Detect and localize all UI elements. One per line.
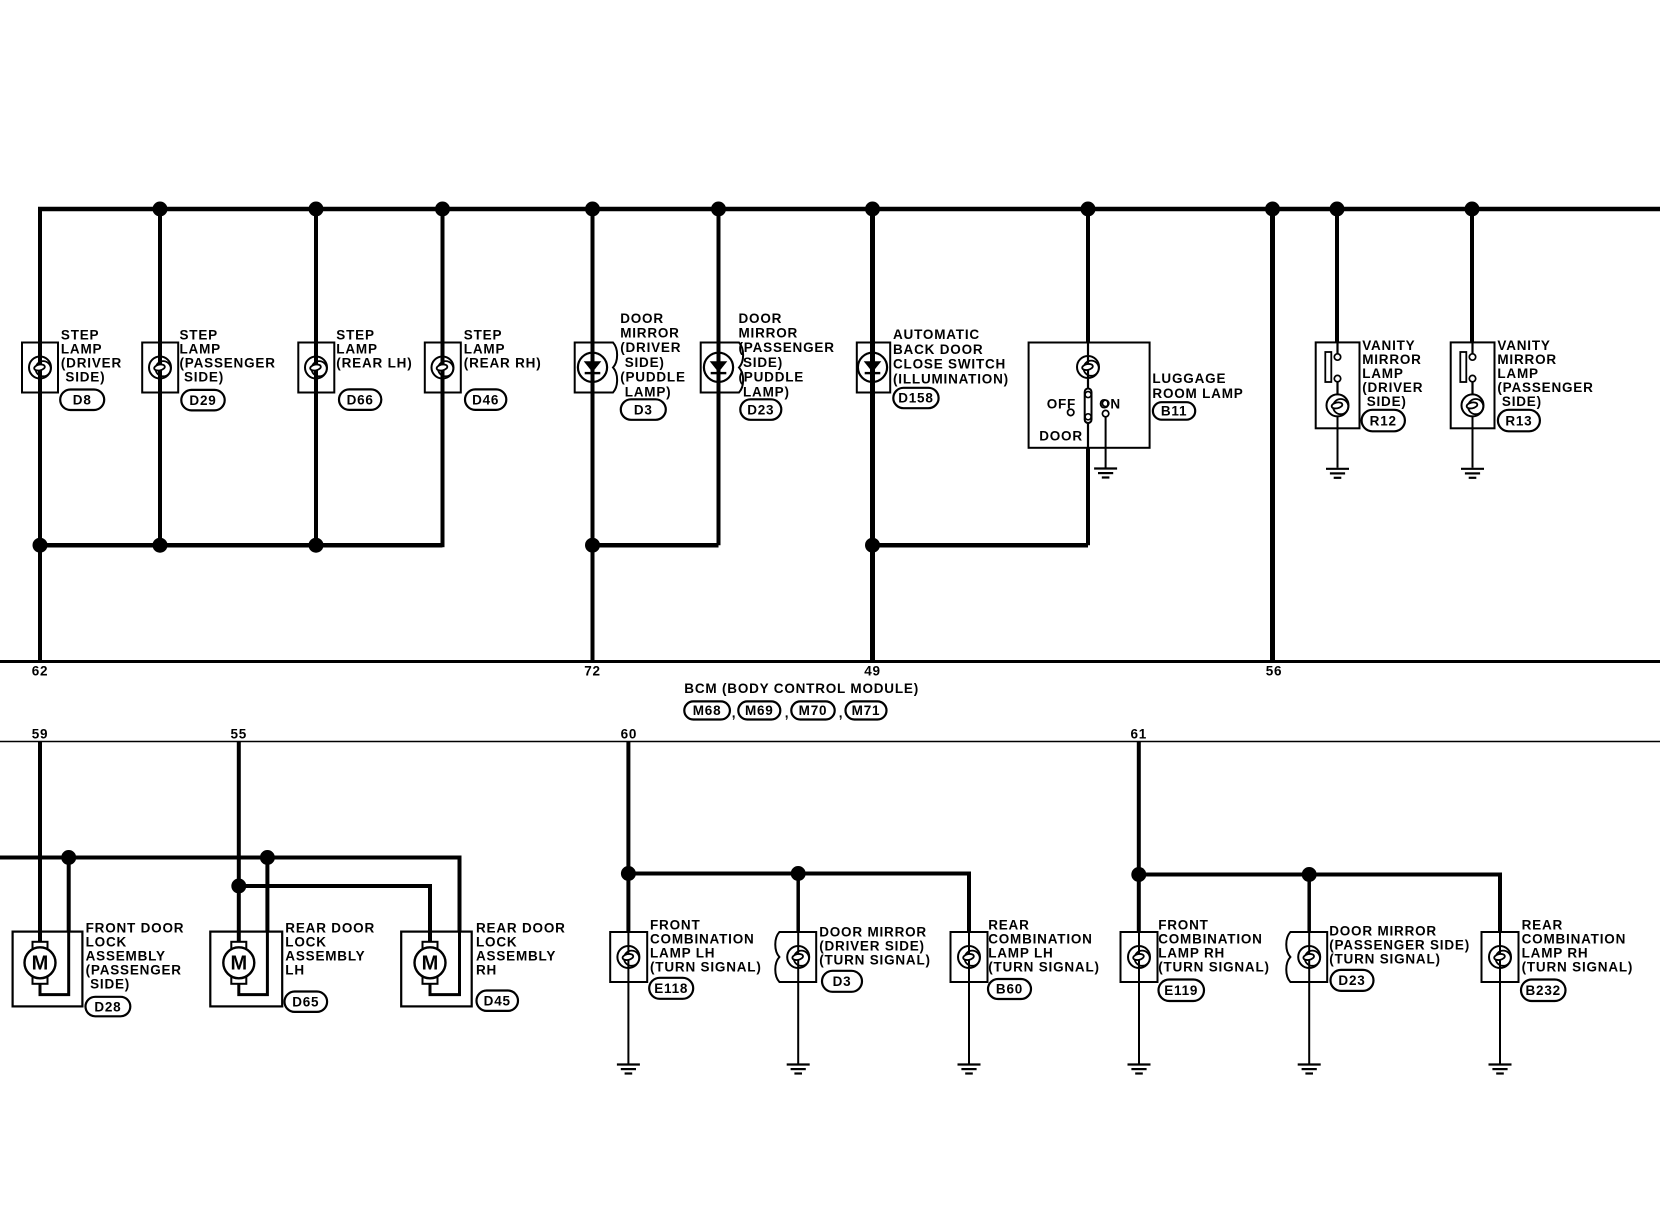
svg-text:COMBINATION: COMBINATION [1158,931,1263,946]
svg-text:M70: M70 [799,703,828,718]
svg-text:COMBINATION: COMBINATION [1522,931,1627,946]
svg-text:SIDE): SIDE) [65,370,105,385]
svg-text:ASSEMBLY: ASSEMBLY [285,949,365,964]
svg-text:M68: M68 [693,703,722,718]
svg-text:LOCK: LOCK [476,935,517,950]
svg-text:DOOR: DOOR [1039,429,1083,444]
svg-text:LAMP: LAMP [180,342,221,357]
svg-text:(DRIVER: (DRIVER [61,356,122,371]
svg-text:(PUDDLE: (PUDDLE [620,370,686,385]
svg-text:(PASSENGER: (PASSENGER [86,963,182,978]
svg-text:(TURN SIGNAL): (TURN SIGNAL) [1158,959,1270,974]
svg-text:DOOR MIRROR: DOOR MIRROR [819,925,927,940]
svg-text:SIDE): SIDE) [625,355,665,370]
svg-text:E119: E119 [1164,983,1198,998]
svg-text:STEP: STEP [180,328,218,343]
svg-text:D29: D29 [189,393,216,408]
svg-text:M: M [32,952,49,974]
svg-text:(DRIVER: (DRIVER [1362,380,1423,395]
svg-text:D23: D23 [747,402,774,417]
svg-text:,: , [732,706,737,721]
svg-text:61: 61 [1130,726,1147,741]
svg-text:COMBINATION: COMBINATION [988,931,1093,946]
svg-text:(PASSENGER: (PASSENGER [180,356,276,371]
svg-text:MIRROR: MIRROR [1362,352,1422,367]
svg-text:55: 55 [230,726,247,741]
svg-text:R13: R13 [1505,413,1532,428]
svg-text:LUGGAGE: LUGGAGE [1152,371,1226,386]
svg-text:BACK DOOR: BACK DOOR [893,342,983,357]
svg-text:D28: D28 [94,999,121,1014]
svg-text:D66: D66 [347,392,374,407]
svg-text:D158: D158 [898,391,933,406]
svg-text:ROOM LAMP: ROOM LAMP [1152,386,1243,401]
svg-text:ASSEMBLY: ASSEMBLY [476,949,556,964]
svg-text:(ILLUMINATION): (ILLUMINATION) [893,371,1009,386]
svg-text:SIDE): SIDE) [743,355,783,370]
svg-text:LAMP RH: LAMP RH [1522,945,1589,960]
svg-text:DOOR: DOOR [620,311,664,326]
svg-text:LAMP: LAMP [464,342,505,357]
svg-text:AUTOMATIC: AUTOMATIC [893,327,980,342]
svg-text:MIRROR: MIRROR [739,326,799,341]
svg-text:SIDE): SIDE) [1367,394,1407,409]
svg-text:VANITY: VANITY [1497,338,1550,353]
svg-text:D23: D23 [1338,973,1365,988]
svg-text:D3: D3 [634,402,653,417]
svg-text:LAMP LH: LAMP LH [988,945,1053,960]
svg-text:FRONT: FRONT [1158,917,1209,932]
svg-text:LAMP LH: LAMP LH [650,945,715,960]
svg-text:LOCK: LOCK [285,935,326,950]
svg-text:STEP: STEP [61,328,99,343]
svg-text:LAMP: LAMP [336,342,377,357]
svg-text:LAMP: LAMP [1497,366,1538,381]
svg-text:STEP: STEP [464,328,502,343]
svg-text:E118: E118 [654,981,688,996]
svg-text:D3: D3 [833,974,852,989]
svg-text:DOOR MIRROR: DOOR MIRROR [1329,924,1437,939]
svg-text:CLOSE SWITCH: CLOSE SWITCH [893,357,1006,372]
svg-text:M71: M71 [852,703,881,718]
svg-text:LAMP RH: LAMP RH [1158,945,1225,960]
svg-text:SIDE): SIDE) [184,370,224,385]
svg-text:LAMP: LAMP [61,342,102,357]
svg-text:VANITY: VANITY [1362,338,1415,353]
svg-text:LAMP): LAMP) [625,384,672,399]
svg-text:(REAR RH): (REAR RH) [464,356,542,371]
svg-text:LOCK: LOCK [86,935,127,950]
svg-text:(TURN SIGNAL): (TURN SIGNAL) [650,959,762,974]
svg-text:(TURN SIGNAL): (TURN SIGNAL) [988,959,1100,974]
svg-text:SIDE): SIDE) [90,977,130,992]
svg-text:RH: RH [476,963,497,978]
svg-text:D8: D8 [73,392,92,407]
svg-text:(PASSENGER: (PASSENGER [739,340,835,355]
svg-text:49: 49 [864,663,881,678]
svg-text:DOOR: DOOR [739,311,783,326]
svg-text:ASSEMBLY: ASSEMBLY [86,949,166,964]
svg-text:LAMP): LAMP) [743,384,790,399]
svg-text:D46: D46 [472,392,499,407]
svg-text:R12: R12 [1370,413,1397,428]
svg-text:FRONT DOOR: FRONT DOOR [86,921,185,936]
svg-text:REAR: REAR [1522,917,1563,932]
svg-text:59: 59 [32,726,49,741]
svg-text:M69: M69 [745,703,774,718]
svg-text:56: 56 [1266,663,1283,678]
svg-text:(DRIVER SIDE): (DRIVER SIDE) [819,939,925,954]
svg-text:(PASSENGER: (PASSENGER [1497,380,1593,395]
svg-text:(PUDDLE: (PUDDLE [739,370,805,385]
svg-text:LAMP: LAMP [1362,366,1403,381]
svg-text:D45: D45 [484,993,511,1008]
svg-text:60: 60 [621,726,638,741]
svg-text:(PASSENGER SIDE): (PASSENGER SIDE) [1329,938,1470,953]
svg-text:B11: B11 [1161,404,1187,419]
svg-text:REAR DOOR: REAR DOOR [476,921,566,936]
svg-text:M: M [422,952,439,974]
svg-text:FRONT: FRONT [650,917,701,932]
svg-text:LH: LH [285,963,305,978]
svg-text:(TURN SIGNAL): (TURN SIGNAL) [1329,952,1441,967]
svg-text:REAR DOOR: REAR DOOR [285,921,375,936]
svg-text:(DRIVER: (DRIVER [620,340,681,355]
svg-text:62: 62 [32,663,49,678]
svg-text:MIRROR: MIRROR [1497,352,1557,367]
svg-text:(REAR LH): (REAR LH) [336,356,412,371]
svg-text:REAR: REAR [988,917,1029,932]
svg-text:COMBINATION: COMBINATION [650,931,755,946]
svg-text:SIDE): SIDE) [1502,394,1542,409]
svg-text:B232: B232 [1526,983,1561,998]
svg-text:(TURN SIGNAL): (TURN SIGNAL) [1522,959,1634,974]
svg-text:(TURN SIGNAL): (TURN SIGNAL) [819,953,931,968]
svg-text:,: , [839,706,844,721]
svg-text:,: , [785,706,790,721]
svg-text:M: M [230,952,247,974]
svg-text:STEP: STEP [336,328,374,343]
svg-text:BCM (BODY CONTROL MODULE): BCM (BODY CONTROL MODULE) [684,681,919,696]
svg-text:D65: D65 [292,994,319,1009]
svg-text:72: 72 [584,663,601,678]
svg-text:B60: B60 [996,982,1023,997]
svg-text:MIRROR: MIRROR [620,326,680,341]
